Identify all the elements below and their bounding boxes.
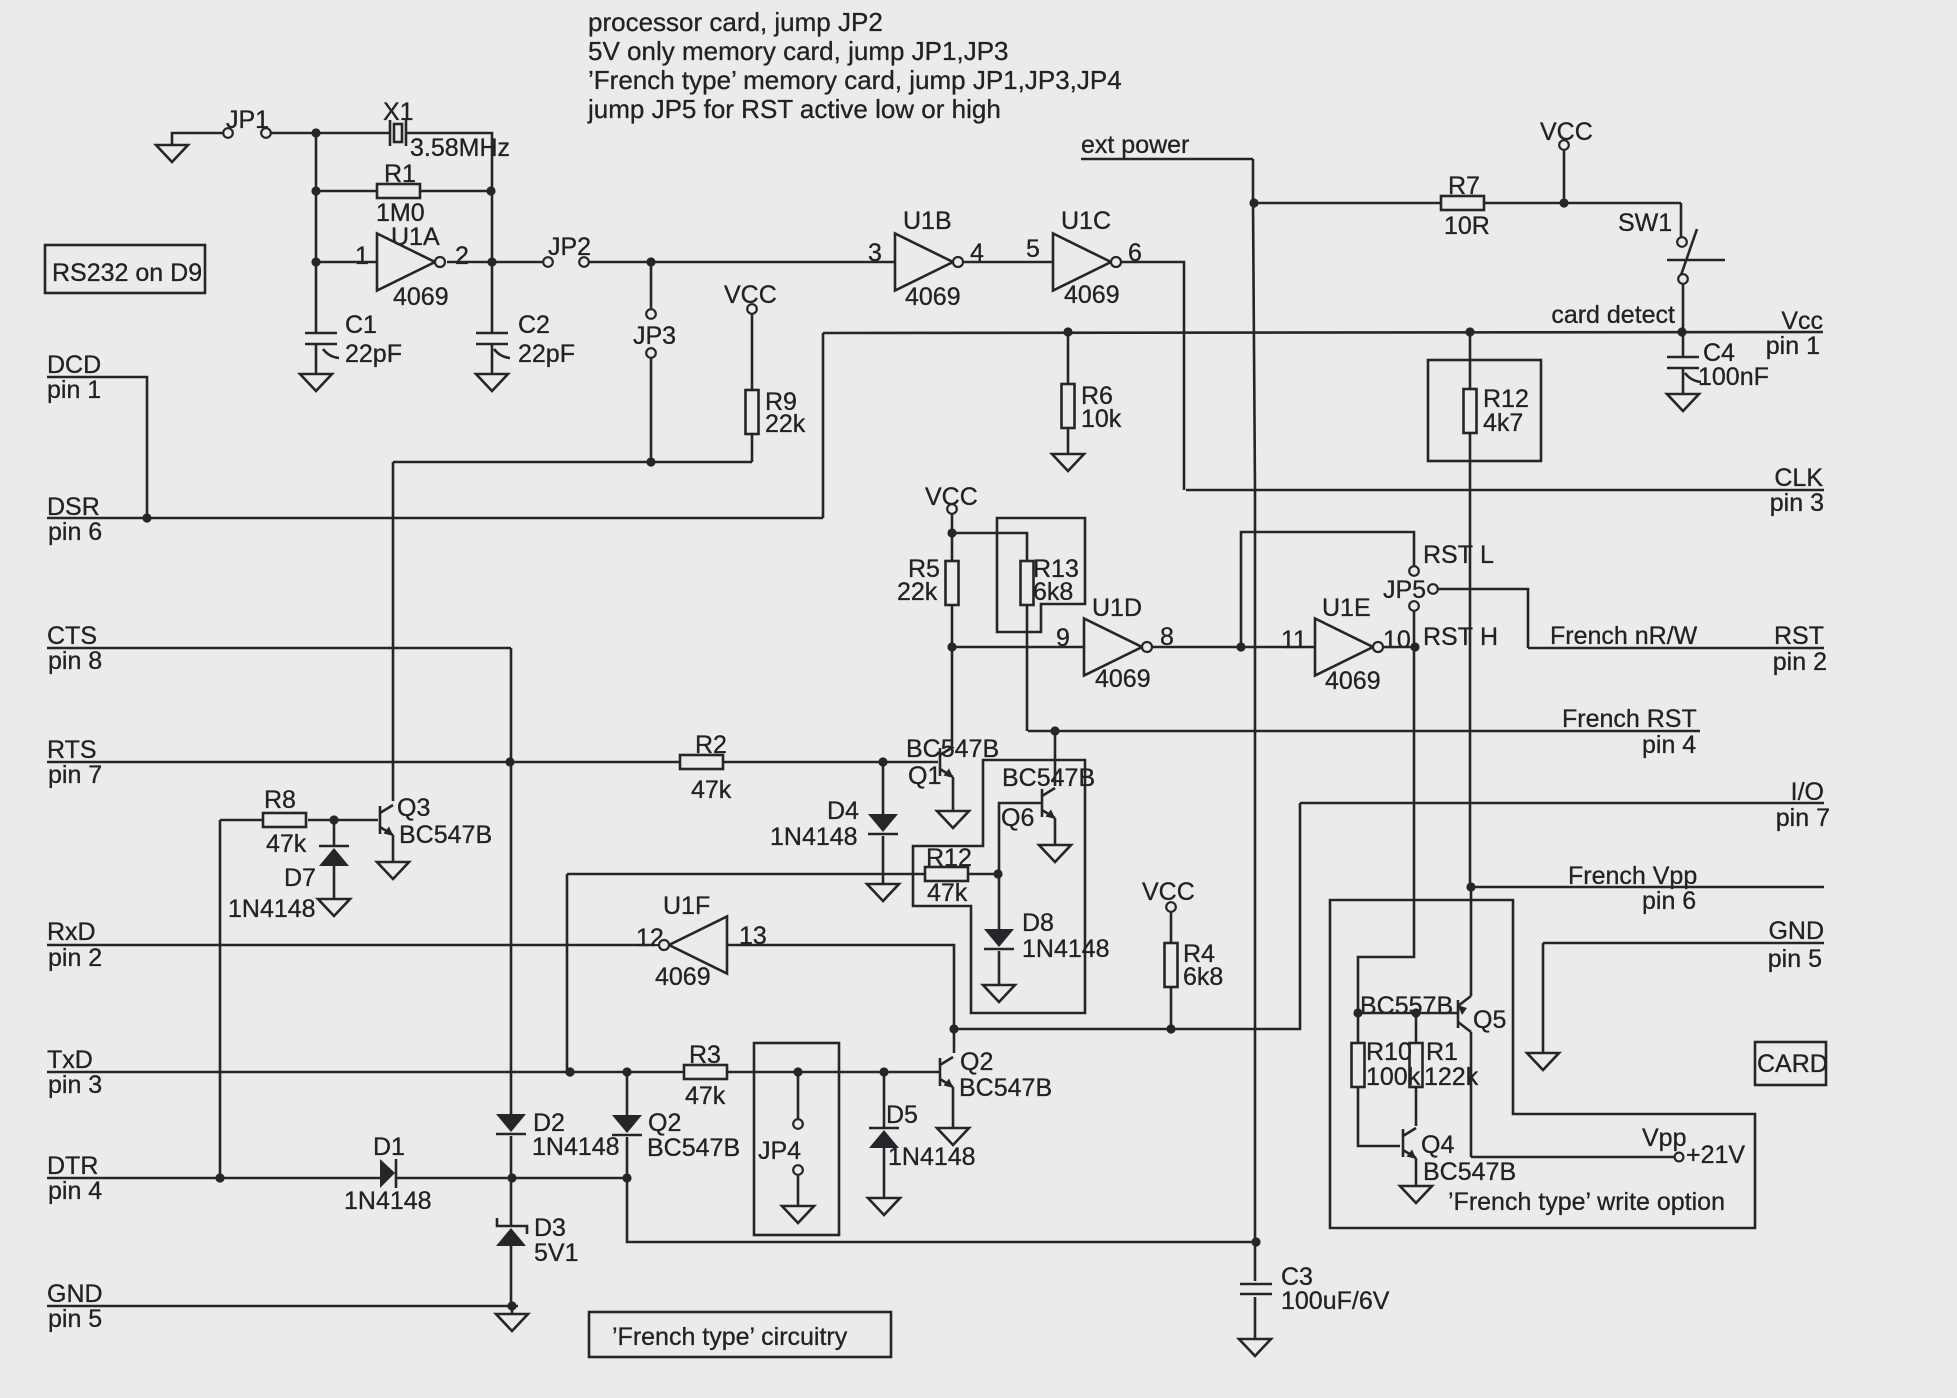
diode D7 — [228, 820, 349, 923]
svg-text:L: L — [1480, 541, 1494, 569]
svg-text:2: 2 — [455, 242, 469, 270]
wire osc left column — [311, 133, 320, 333]
inverter U1E — [1281, 594, 1411, 695]
ground at D5 — [868, 1198, 900, 1215]
svg-text:47k: 47k — [927, 879, 968, 907]
port RxD pin 2 — [47, 918, 655, 972]
vcc symbol at R5 — [925, 483, 978, 538]
svg-text:11: 11 — [1281, 626, 1307, 654]
svg-text:GND: GND — [47, 1280, 103, 1308]
svg-text:U1E: U1E — [1322, 594, 1371, 622]
port DTR pin 4 — [47, 1152, 380, 1205]
wire Q1 collector to R5 — [951, 647, 954, 748]
capacitor C3 — [1240, 1237, 1390, 1339]
wire I O feed line — [954, 803, 1300, 1034]
svg-text:+21V: +21V — [1686, 1141, 1745, 1169]
inverter U1F — [636, 892, 767, 991]
port DCD pin 1 — [47, 351, 147, 518]
svg-text:H: H — [1480, 623, 1498, 651]
svg-text:122k: 122k — [1424, 1063, 1479, 1091]
port CTS pin 8 — [47, 622, 511, 675]
wire JP2 to U1B — [589, 239, 895, 267]
svg-text:TxD: TxD — [47, 1046, 93, 1074]
svg-text:U1D: U1D — [1092, 594, 1142, 622]
ground at C2 — [476, 374, 508, 391]
svg-text:C1: C1 — [345, 311, 377, 339]
svg-text:5V only memory card, jump JP1,: 5V only memory card, jump JP1,JP3 — [588, 36, 1009, 66]
svg-text:22pF: 22pF — [518, 340, 575, 368]
svg-text:X1: X1 — [383, 98, 414, 126]
wire Q6 base to D8 — [999, 803, 1042, 929]
inverter U1C — [1053, 207, 1142, 309]
svg-text:pin 8: pin 8 — [48, 647, 102, 675]
svg-text:CARD: CARD — [1757, 1050, 1828, 1078]
svg-text:D5: D5 — [886, 1101, 918, 1129]
wire U1D input — [947, 642, 1084, 651]
svg-text:card detect: card detect — [1551, 301, 1675, 329]
svg-text:pin 2: pin 2 — [48, 944, 102, 972]
port TxD pin 3 — [47, 1046, 684, 1099]
ground at GND pin 5 — [496, 1314, 528, 1331]
ground at C4 — [1667, 394, 1699, 411]
option box around Q6 and D8 — [913, 760, 1085, 1013]
svg-text:pin 5: pin 5 — [1768, 945, 1822, 973]
resistor R7 — [1255, 172, 1681, 240]
wire JP1 left to ground — [172, 133, 223, 145]
vcc symbol at R7 — [1540, 118, 1593, 208]
wire CTS chain vertical — [505, 648, 514, 1114]
svg-text:100nF: 100nF — [1698, 363, 1769, 391]
node ext power — [1081, 131, 1253, 159]
port French RST pin 4 — [1028, 705, 1700, 759]
label French type circuitry — [589, 1312, 891, 1357]
transistor Q5 pnp — [1360, 887, 1506, 1157]
ground at D7 — [318, 899, 350, 916]
svg-text:1N4148: 1N4148 — [1022, 935, 1110, 963]
svg-text:Q5: Q5 — [1473, 1006, 1506, 1034]
wire R12 to TxD — [565, 874, 574, 1077]
svg-text:4069: 4069 — [905, 283, 961, 311]
wire U1B out to U1C in — [963, 235, 1053, 263]
ground at Q4 — [1400, 1186, 1432, 1203]
vcc symbol at R9 — [724, 281, 777, 314]
resistor R6 — [1062, 332, 1122, 454]
note text block — [587, 7, 1122, 124]
resistor R1 122k — [1410, 1013, 1479, 1126]
wire U1A output to JP2 — [447, 257, 543, 266]
ground at Q1 — [937, 811, 969, 828]
svg-text:French RST: French RST — [1562, 705, 1697, 733]
svg-text:1N4148: 1N4148 — [344, 1187, 432, 1215]
svg-text:C2: C2 — [518, 311, 550, 339]
node Vpp +21V — [1471, 1124, 1745, 1169]
svg-text:4069: 4069 — [655, 963, 711, 991]
port GND pin 5 — [47, 1280, 518, 1333]
diode D6 labeled Q2 — [612, 1072, 740, 1178]
jumper JP2 — [543, 233, 591, 267]
svg-text:BC547B: BC547B — [959, 1074, 1052, 1102]
svg-text:RS232 on D9: RS232 on D9 — [52, 259, 202, 287]
wire Q5 base node — [1353, 1008, 1458, 1017]
resistor R1 — [316, 160, 491, 227]
svg-text:pin 7: pin 7 — [48, 761, 102, 789]
wire node Q3-JP3-R9 — [393, 457, 752, 466]
svg-text:10k: 10k — [1081, 405, 1122, 433]
inverter U1D — [1056, 594, 1174, 693]
svg-text:1N4148: 1N4148 — [888, 1143, 976, 1171]
svg-text:Q3: Q3 — [397, 794, 430, 822]
diode D5 — [869, 1072, 976, 1198]
resistor R4 — [1165, 912, 1224, 1029]
svg-text:processor card, jump JP2: processor card, jump JP2 — [588, 7, 883, 37]
svg-text:R8: R8 — [264, 786, 296, 814]
jumper JP4 with option box — [754, 1043, 839, 1235]
resistor R13 with option box — [952, 518, 1085, 731]
svg-text:BC547B: BC547B — [399, 821, 492, 849]
svg-text:pin 7: pin 7 — [1776, 804, 1830, 832]
svg-text:R10: R10 — [1366, 1038, 1412, 1066]
resistor R12 4k7 with option box — [1428, 332, 1541, 887]
ground at JP4 — [782, 1206, 814, 1223]
resistor R10 — [1352, 1013, 1421, 1146]
svg-text:10R: 10R — [1444, 212, 1490, 240]
ground at GND right — [1527, 1053, 1559, 1070]
svg-text:Q1: Q1 — [908, 762, 941, 790]
diode D8 — [984, 909, 1110, 985]
port CLK pin 3 — [1186, 464, 1824, 517]
svg-text:4069: 4069 — [1325, 667, 1381, 695]
jumper JP1 — [223, 106, 271, 138]
svg-text:’French type’ memory card, jum: ’French type’ memory card, jump JP1,JP3,… — [588, 65, 1122, 95]
wire U1E output — [1383, 642, 1420, 651]
svg-text:BC547B: BC547B — [647, 1134, 740, 1162]
svg-text:1N4148: 1N4148 — [228, 895, 316, 923]
svg-text:JP5: JP5 — [1383, 576, 1426, 604]
svg-text:100uF/6V: 100uF/6V — [1281, 1287, 1390, 1315]
svg-text:D7: D7 — [284, 864, 316, 892]
resistor R9 — [746, 314, 806, 462]
svg-text:47k: 47k — [266, 830, 307, 858]
svg-text:10: 10 — [1383, 626, 1411, 654]
svg-text:1: 1 — [355, 242, 369, 270]
wire R8 to DTR — [219, 820, 222, 1178]
svg-text:BC557B: BC557B — [1360, 992, 1453, 1020]
svg-text:6k8: 6k8 — [1183, 963, 1223, 991]
svg-text:pin 6: pin 6 — [1642, 887, 1696, 915]
svg-text:R1: R1 — [1426, 1038, 1458, 1066]
ground at Q6 — [1039, 845, 1071, 862]
wire R1 to output node — [486, 186, 495, 262]
svg-text:pin 4: pin 4 — [48, 1177, 102, 1205]
svg-text:pin 5: pin 5 — [48, 1305, 102, 1333]
svg-text:pin 4: pin 4 — [1642, 731, 1696, 759]
capacitor C1 — [305, 311, 402, 374]
svg-text:4k7: 4k7 — [1483, 409, 1523, 437]
node card detect — [823, 301, 1823, 337]
svg-text:U1C: U1C — [1061, 207, 1111, 235]
port GND pin 5 right — [1543, 917, 1824, 1053]
capacitor C4 — [1667, 332, 1769, 394]
svg-text:JP4: JP4 — [758, 1137, 801, 1165]
wire U1F input to Q2 collector — [727, 945, 959, 1053]
wire card detect to DSR — [822, 333, 825, 518]
inverter U1A — [355, 223, 469, 311]
resistor R12 47k — [567, 844, 1003, 907]
ground at R6 — [1052, 454, 1084, 471]
svg-text:D4: D4 — [827, 797, 859, 825]
wire RST H to write option — [1358, 647, 1414, 1013]
wire JP1 to X1 node — [271, 128, 389, 137]
jumper JP5 — [1383, 541, 1498, 651]
svg-text:Q4: Q4 — [1421, 1131, 1454, 1159]
svg-text:U1A: U1A — [391, 223, 440, 251]
svg-text:DCD: DCD — [47, 351, 101, 379]
svg-text:Vpp: Vpp — [1642, 1124, 1686, 1152]
svg-text:JP3: JP3 — [633, 322, 676, 350]
svg-text:4069: 4069 — [393, 283, 449, 311]
svg-text:22k: 22k — [765, 410, 806, 438]
svg-text:French nR/W: French nR/W — [1550, 622, 1698, 650]
port RST pin 2 — [1528, 622, 1827, 676]
transistor Q4 — [1403, 1128, 1516, 1186]
wire Q3 collector — [392, 462, 395, 801]
resistor R3 — [565, 1041, 940, 1110]
svg-text:4069: 4069 — [1095, 665, 1151, 693]
ground at Q3 — [377, 862, 409, 879]
wire U1D output — [1152, 642, 1315, 651]
diode D1 — [215, 1133, 631, 1215]
svg-text:BC547B: BC547B — [1423, 1158, 1516, 1186]
diode D2 — [496, 1109, 620, 1178]
ground at C1 — [300, 374, 332, 391]
option box French write — [1330, 900, 1755, 1228]
transistor Q6 — [1001, 731, 1095, 845]
svg-text:RxD: RxD — [47, 918, 96, 946]
svg-text:U1B: U1B — [903, 207, 952, 235]
capacitor C2 — [476, 262, 575, 374]
svg-text:pin 1: pin 1 — [1766, 332, 1820, 360]
svg-text:pin 6: pin 6 — [48, 518, 102, 546]
svg-text:ext power: ext power — [1081, 131, 1189, 159]
wire JP5 to RST — [1438, 589, 1528, 648]
ground at Q2 — [937, 1128, 969, 1145]
wire D6 to C3 rail — [627, 1178, 1255, 1242]
svg-text:CTS: CTS — [47, 622, 97, 650]
svg-text:U1F: U1F — [663, 892, 710, 920]
port Vcc pin 1 — [1766, 307, 1823, 360]
svg-text:RST: RST — [1423, 541, 1473, 569]
svg-text:D3: D3 — [534, 1214, 566, 1242]
wire U1C out to CLK — [1121, 262, 1184, 490]
svg-text:’French type’ write option: ’French type’ write option — [1448, 1188, 1725, 1216]
svg-text:pin 3: pin 3 — [48, 1071, 102, 1099]
transistor Q2 — [940, 1048, 1052, 1128]
svg-text:pin 3: pin 3 — [1770, 489, 1824, 517]
svg-text:BC547B: BC547B — [1002, 764, 1095, 792]
transistor Q3 — [380, 794, 492, 862]
inverter U1B — [895, 207, 984, 311]
svg-text:D1: D1 — [373, 1133, 405, 1161]
wire ext power vertical — [1249, 159, 1258, 1242]
svg-text:DTR: DTR — [47, 1152, 98, 1180]
label RS232 on D9 — [45, 245, 205, 293]
svg-text:3.58MHz: 3.58MHz — [410, 134, 510, 162]
svg-text:3: 3 — [868, 239, 882, 267]
port DSR pin 6 — [47, 493, 823, 546]
svg-text:1N4148: 1N4148 — [770, 823, 858, 851]
svg-text:22k: 22k — [897, 578, 938, 606]
svg-text:Q6: Q6 — [1001, 804, 1034, 832]
wire Q1 emitter — [952, 777, 955, 811]
svg-text:GND: GND — [1768, 917, 1824, 945]
svg-text:6k8: 6k8 — [1033, 578, 1073, 606]
wire GND junction — [507, 1301, 516, 1314]
wire U1A input — [316, 261, 377, 264]
svg-text:Vcc: Vcc — [1781, 307, 1823, 335]
label CARD — [1755, 1042, 1828, 1085]
crystal X1 — [383, 98, 510, 162]
svg-text:jump JP5 for RST active low or: jump JP5 for RST active low or high — [587, 94, 1001, 124]
port I O pin 7 — [1300, 778, 1830, 832]
svg-text:pin 2: pin 2 — [1773, 648, 1827, 676]
svg-text:Q2: Q2 — [648, 1109, 681, 1137]
svg-text:1N4148: 1N4148 — [532, 1133, 620, 1161]
svg-text:47k: 47k — [685, 1082, 726, 1110]
wire X1 right lead — [406, 133, 492, 191]
svg-text:RST: RST — [1774, 622, 1824, 650]
vcc symbol at R4 — [1142, 878, 1195, 912]
svg-text:D8: D8 — [1022, 909, 1054, 937]
resistor R5 — [897, 533, 959, 647]
svg-text:Q2: Q2 — [960, 1048, 993, 1076]
svg-text:47k: 47k — [691, 776, 732, 804]
resistor R2 — [680, 731, 938, 804]
zener D3 — [496, 1178, 578, 1306]
svg-text:4069: 4069 — [1064, 281, 1120, 309]
wire RST L bypass — [1241, 532, 1414, 647]
ground at C3 — [1239, 1339, 1271, 1356]
transistor Q1 — [906, 735, 999, 790]
resistor R8 — [220, 786, 378, 858]
svg-text:5V1: 5V1 — [534, 1239, 578, 1267]
port RTS pin 7 — [47, 736, 680, 789]
node French Vpp pin 6 — [1466, 862, 1824, 915]
ground at D8 — [983, 985, 1015, 1002]
svg-text:RTS: RTS — [47, 736, 97, 764]
svg-text:’French type’ circuitry: ’French type’ circuitry — [612, 1323, 848, 1351]
ground at D4 — [867, 884, 899, 901]
svg-text:pin 1: pin 1 — [47, 376, 101, 404]
jumper JP3 — [633, 262, 676, 462]
svg-text:CLK: CLK — [1774, 464, 1823, 492]
svg-text:SW1: SW1 — [1618, 209, 1672, 237]
diode D4 — [770, 762, 898, 884]
svg-text:5: 5 — [1026, 235, 1040, 263]
switch SW1 — [1618, 203, 1725, 332]
svg-text:RST: RST — [1423, 623, 1473, 651]
ground at JP1 — [156, 145, 188, 162]
svg-text:22pF: 22pF — [345, 340, 402, 368]
